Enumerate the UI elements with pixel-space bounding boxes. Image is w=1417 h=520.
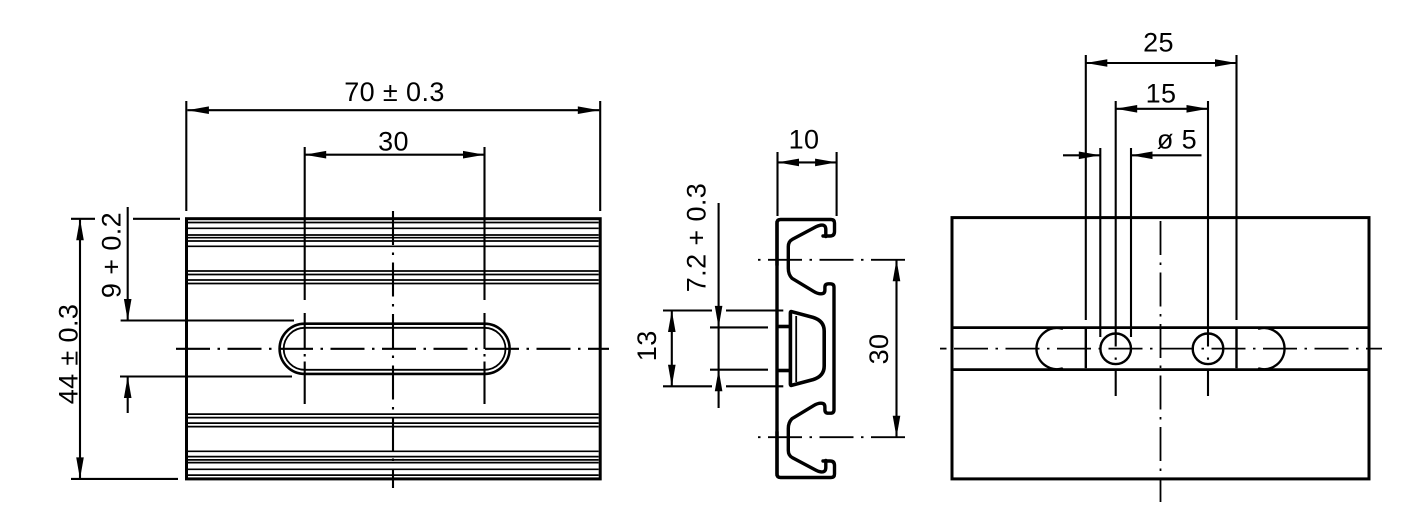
svg-text:15: 15 (1146, 79, 1177, 109)
svg-text:13: 13 (632, 330, 662, 361)
svg-text:ø 5: ø 5 (1157, 125, 1197, 155)
svg-text:30: 30 (378, 127, 409, 157)
svg-text:9 + 0.2: 9 + 0.2 (97, 212, 127, 298)
svg-text:7.2 + 0.3: 7.2 + 0.3 (682, 183, 712, 292)
svg-text:70 ± 0.3: 70 ± 0.3 (344, 77, 445, 107)
svg-text:10: 10 (789, 125, 820, 155)
svg-text:25: 25 (1143, 28, 1174, 58)
svg-text:44 ± 0.3: 44 ± 0.3 (54, 304, 84, 405)
svg-text:30: 30 (864, 334, 894, 365)
